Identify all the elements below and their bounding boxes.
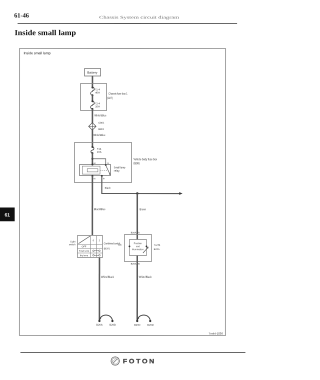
svg-text:(G07): (G07) xyxy=(107,96,113,100)
wire position lamp unit to lamp 2 xyxy=(136,256,138,321)
fuse F2-4 10A xyxy=(91,100,101,110)
svg-text:switch: switch xyxy=(69,243,76,246)
FOTON logo xyxy=(111,357,156,366)
svg-text:A\B: A\B xyxy=(118,244,122,247)
svg-text:Chassis System circuit diagram: Chassis System circuit diagram xyxy=(99,15,180,20)
contact row small lamp xyxy=(93,250,95,252)
svg-text:85: 85 xyxy=(93,178,95,180)
svg-text:Battery: Battery xyxy=(87,71,98,75)
combined switch S1 xyxy=(77,235,102,257)
svg-text:30: 30 xyxy=(107,163,109,165)
svg-text:B26C: B26C xyxy=(134,323,141,327)
svg-text:Black: Black xyxy=(105,186,111,190)
fuse F14 10A (inside body fuse box) xyxy=(91,146,102,154)
svg-text:87: 87 xyxy=(103,178,105,180)
svg-text:(B08): (B08) xyxy=(134,161,140,165)
wire fuse box to connector xyxy=(91,109,93,123)
svg-text:Black\Blue: Black\Blue xyxy=(94,207,106,211)
header rule xyxy=(18,22,237,24)
position lamp unit (B20A) xyxy=(124,234,151,261)
svg-text:B20A 7B: B20A 7B xyxy=(131,263,140,266)
lamp L1 xyxy=(96,315,116,327)
battery B xyxy=(85,68,101,76)
wire junction down to position lamp unit xyxy=(136,194,138,240)
junction node xyxy=(136,192,138,194)
svg-text:White\Blue: White\Blue xyxy=(94,113,106,117)
svg-text:Inside small lamp: Inside small lamp xyxy=(24,51,51,55)
svg-text:7A/7B: 7A/7B xyxy=(154,244,161,247)
svg-text:40A: 40A xyxy=(95,90,100,94)
svg-text:Inside small lamp: Inside small lamp xyxy=(15,28,77,37)
chassis fuse box 1 (G07) xyxy=(81,83,128,110)
svg-text:B26D: B26D xyxy=(147,323,154,327)
svg-text:(B20): (B20) xyxy=(104,247,110,250)
svg-text:Tm44-1036: Tm44-1036 xyxy=(209,332,224,336)
svg-text:B26B: B26B xyxy=(109,323,116,327)
wire relay contact down and right to junction and arrow xyxy=(102,176,180,194)
lamp L2 xyxy=(134,315,154,327)
svg-text:Position: Position xyxy=(134,242,143,245)
svg-text:61: 61 xyxy=(5,213,11,219)
node branch point xyxy=(91,158,93,160)
svg-text:White\Black: White\Black xyxy=(101,275,114,279)
relay contact arm xyxy=(106,165,110,174)
svg-text:illumination: illumination xyxy=(132,248,144,251)
wire branch to relay switch pin xyxy=(92,159,105,165)
svg-text:Brown: Brown xyxy=(140,207,147,211)
wire connector to body fuse box xyxy=(91,130,93,147)
relay coil xyxy=(82,166,100,174)
svg-text:B20A: B20A xyxy=(154,248,160,251)
relay K1 (small lamp relay) xyxy=(80,163,111,180)
svg-text:C801: C801 xyxy=(98,122,105,125)
arrow to other circuit xyxy=(179,192,182,195)
svg-text:Chassis fuse box 1: Chassis fuse box 1 xyxy=(108,92,127,96)
svg-text:61-46: 61-46 xyxy=(14,13,30,20)
wire relay coil down through box to combined switch xyxy=(91,176,93,235)
svg-text:White\Black: White\Black xyxy=(139,275,152,279)
dimmer arrow xyxy=(143,248,148,253)
connector C801/B801 (inline diamond) xyxy=(89,122,105,131)
section tab 61 xyxy=(0,208,15,222)
svg-text:B26A: B26A xyxy=(96,323,103,327)
svg-text:FOTON: FOTON xyxy=(123,358,156,365)
fuse F1-4 40A xyxy=(91,86,101,96)
svg-text:relay: relay xyxy=(114,169,120,173)
svg-text:Small lamp: Small lamp xyxy=(79,251,90,253)
svg-text:Big lamp: Big lamp xyxy=(80,255,89,257)
svg-text:10A: 10A xyxy=(95,104,100,108)
svg-text:10A: 10A xyxy=(97,150,102,154)
contact row big lamp xyxy=(93,254,95,256)
footer rule xyxy=(20,351,245,353)
svg-text:B801: B801 xyxy=(98,128,104,131)
vehicle body fuse box (B08) xyxy=(75,142,158,182)
wire combined switch to lamp 1 xyxy=(98,257,100,320)
unit pin dots xyxy=(129,245,131,247)
svg-text:B20A 7A: B20A 7A xyxy=(131,231,140,234)
diagram frame xyxy=(19,48,225,335)
svg-text:White\Blue: White\Blue xyxy=(93,133,105,137)
svg-text:86: 86 xyxy=(94,163,96,165)
wire between fuses xyxy=(91,95,93,101)
svg-text:OFF: OFF xyxy=(82,246,87,248)
wire battery to chassis fuse box xyxy=(91,76,93,87)
wire fuse to relay, with branch node xyxy=(91,153,93,164)
switch wiper xyxy=(78,236,90,244)
